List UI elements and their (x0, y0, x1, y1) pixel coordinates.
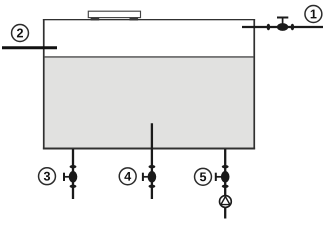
left flange (267, 24, 271, 31)
valve V4 (vertical) (143, 165, 156, 188)
top flange (70, 165, 77, 168)
tank wall left (43, 19, 45, 149)
wire pipe P4 (dip tube through bottom) (151, 123, 153, 199)
bottom flange (222, 185, 229, 188)
wire pipe P5 (bottom right outlet) (224, 149, 226, 219)
body (69, 171, 78, 183)
stem (64, 176, 70, 178)
node label 5 (195, 168, 212, 185)
tank T1 interior (45, 20, 254, 147)
bottom flange (70, 185, 77, 188)
liquid fill (45, 58, 254, 147)
top flange (149, 165, 156, 168)
level indicator line (node 2) (2, 46, 57, 49)
tank wall top (43, 19, 255, 20)
body (277, 23, 288, 31)
body (221, 171, 230, 183)
liquid surface line (45, 56, 254, 58)
lid / manhole cover (88, 11, 140, 20)
right flange (291, 24, 295, 31)
valve V1 (horizontal, top right) (267, 18, 295, 31)
lid right foot (130, 18, 139, 21)
stem cap (63, 173, 65, 181)
node label 3 (39, 168, 56, 185)
stem (216, 176, 222, 178)
valve V3 (vertical) (64, 165, 77, 188)
tank wall right (253, 19, 255, 149)
wire pipe P3 (bottom left outlet) (72, 149, 74, 199)
node label 4 (119, 168, 136, 185)
lid left foot (91, 18, 100, 21)
wire pipe P1 (top outlet) (242, 26, 323, 28)
bottom flange (149, 185, 156, 188)
stem cap (142, 173, 144, 181)
pump M1 (220, 196, 232, 208)
node label 2 (12, 25, 29, 42)
valve V5 (vertical) (216, 165, 230, 188)
stem (282, 18, 284, 25)
tank wall bottom (43, 148, 255, 150)
stem cap (277, 17, 288, 19)
node label 1 (305, 6, 322, 23)
stem cap (215, 173, 217, 181)
stem (143, 176, 149, 178)
top flange (222, 165, 229, 168)
body (148, 171, 157, 183)
